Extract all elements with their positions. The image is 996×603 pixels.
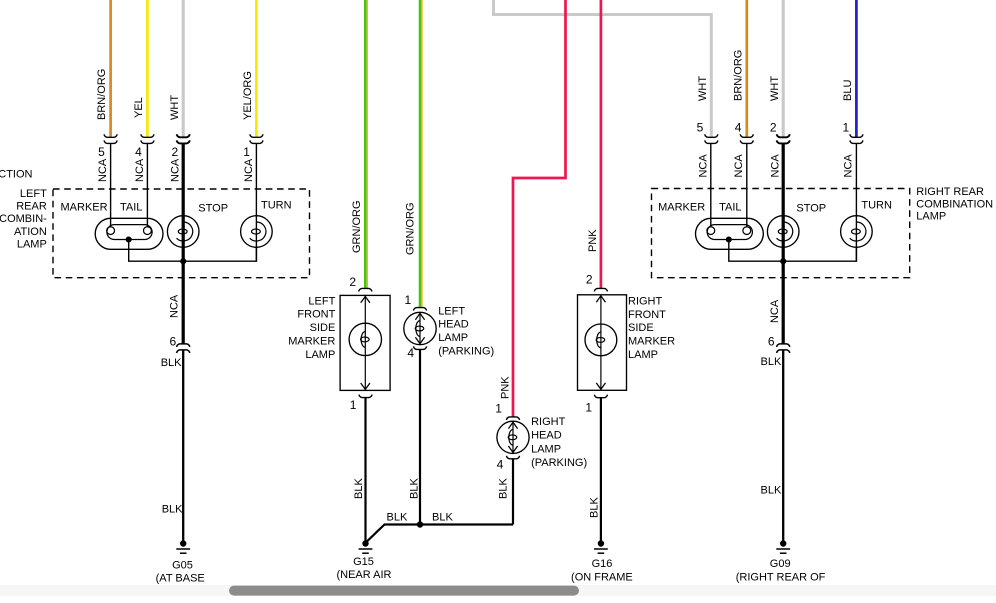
svg-text:BLK: BLK — [353, 478, 365, 499]
svg-text:2: 2 — [770, 121, 777, 135]
wire pin5 to marker bulb right — [710, 144, 712, 228]
ground G16 — [594, 540, 608, 553]
svg-text:6: 6 — [170, 335, 177, 349]
svg-text:BLK: BLK — [761, 356, 782, 368]
scrollbar track — [0, 585, 996, 596]
junction dot marker/tail right — [726, 236, 732, 242]
connector right front side marker pin 2 — [594, 288, 607, 291]
svg-text:(PARKING): (PARKING) — [531, 457, 587, 469]
svg-text:LAMP: LAMP — [628, 349, 658, 361]
svg-text:(NEAR AIR: (NEAR AIR — [336, 569, 391, 581]
marker/tail dual bulb left (stadium) — [95, 218, 163, 249]
stop bulb right — [767, 216, 799, 248]
wire GRN/ORG to left front side marker lamp — [365, 0, 367, 289]
svg-text:BLK: BLK — [588, 497, 600, 518]
svg-text:G16: G16 — [592, 558, 613, 570]
svg-text:(AT BASE: (AT BASE — [156, 573, 205, 585]
svg-text:1: 1 — [243, 145, 250, 159]
ground bus horizontal — [385, 523, 514, 525]
wire BRN/ORG feed left pin5 — [109, 0, 112, 137]
svg-text:G05: G05 — [172, 559, 193, 571]
junction dot left head on bus — [417, 521, 423, 527]
connector pin 1 left — [250, 134, 263, 143]
svg-text:5: 5 — [697, 121, 704, 135]
wire pin6 to G05 — [182, 350, 184, 543]
svg-text:NCA: NCA — [168, 294, 180, 318]
svg-text:PNK: PNK — [587, 229, 599, 252]
svg-text:G15: G15 — [353, 556, 374, 568]
title RIGHT HEAD LAMP (PARKING) — [531, 416, 587, 469]
wire pin6 to G09 — [782, 350, 784, 543]
svg-text:WHT: WHT — [697, 76, 709, 101]
svg-text:2: 2 — [586, 272, 593, 286]
svg-text:BRN/ORG: BRN/ORG — [96, 69, 108, 120]
svg-text:MARKER: MARKER — [658, 202, 705, 214]
svg-text:NCA: NCA — [134, 158, 146, 182]
connector pin 6 left — [177, 344, 190, 353]
svg-text:LAMP: LAMP — [531, 443, 561, 455]
right front side marker bulb — [585, 295, 617, 391]
wire right marker to G16 — [600, 398, 602, 544]
svg-text:MARKER: MARKER — [628, 336, 675, 348]
svg-text:BLK: BLK — [408, 478, 420, 499]
svg-text:MARKER: MARKER — [61, 202, 108, 214]
ground G15 — [359, 540, 373, 553]
svg-text:2: 2 — [349, 275, 356, 289]
svg-text:COMBINATION: COMBINATION — [916, 198, 993, 210]
svg-text:CTION: CTION — [0, 169, 33, 181]
svg-text:WHT: WHT — [169, 95, 181, 120]
title LEFT HEAD LAMP (PARKING) — [438, 305, 494, 357]
svg-text:GRN/ORG: GRN/ORG — [351, 200, 363, 253]
right rear combination lamp dashed box — [652, 189, 910, 278]
svg-text:BLK: BLK — [162, 504, 183, 516]
junction dot marker/tail left — [126, 236, 132, 242]
svg-text:G09: G09 — [770, 558, 791, 570]
svg-text:BLK: BLK — [161, 357, 182, 369]
svg-text:TAIL: TAIL — [719, 202, 741, 214]
svg-text:ATION: ATION — [14, 226, 47, 238]
wire pin5 to marker bulb left — [110, 144, 112, 228]
wire stop bulb to pin6 left (thick) — [182, 261, 185, 344]
svg-text:1: 1 — [585, 401, 592, 415]
svg-text:4: 4 — [497, 457, 504, 471]
svg-text:RIGHT: RIGHT — [628, 295, 663, 307]
connector pin 2 right — [777, 134, 790, 143]
svg-text:HEAD: HEAD — [531, 430, 562, 442]
svg-text:NCA: NCA — [697, 154, 709, 178]
connector left front side marker pin 2 — [359, 288, 372, 291]
svg-text:LEFT: LEFT — [438, 305, 465, 317]
svg-text:SIDE: SIDE — [310, 322, 336, 334]
connector pin 6 right — [777, 344, 790, 353]
svg-text:BLK: BLK — [387, 512, 408, 524]
wire YEL feed left pin4 — [146, 0, 149, 137]
svg-text:STOP: STOP — [198, 202, 228, 214]
junction dot stop/bus right — [780, 258, 786, 264]
wire GRN/ORG to left head lamp — [420, 0, 422, 308]
svg-text:MARKER: MARKER — [288, 336, 335, 348]
wire pin4 to tail bulb left — [146, 144, 148, 228]
svg-text:STOP: STOP — [796, 202, 826, 214]
svg-text:TAIL: TAIL — [120, 202, 142, 214]
svg-text:BLU: BLU — [842, 80, 854, 101]
svg-text:NCA: NCA — [243, 158, 255, 182]
junction dot stop/bus left — [180, 258, 186, 264]
internal ground bus left box — [129, 240, 257, 262]
svg-text:LEFT: LEFT — [308, 295, 335, 307]
svg-text:4: 4 — [135, 145, 142, 159]
wire pin2 stop feed right (thick) — [782, 144, 785, 262]
svg-text:(PARKING): (PARKING) — [438, 346, 494, 358]
left head lamp bulb — [404, 312, 436, 344]
connector pin 4 left — [141, 134, 154, 143]
svg-text:BLK: BLK — [761, 484, 782, 496]
svg-text:FRONT: FRONT — [628, 309, 666, 321]
wire pin1 to turn bulb left — [255, 144, 257, 262]
wire BLU feed right pin1 — [855, 0, 858, 137]
svg-text:(ON FRAME: (ON FRAME — [571, 572, 633, 584]
internal ground bus right box — [729, 240, 857, 262]
marker/tail dual bulb right (stadium) — [696, 218, 764, 249]
svg-text:NCA: NCA — [97, 158, 109, 182]
svg-text:5: 5 — [98, 145, 105, 159]
stop bulb left — [167, 216, 199, 248]
svg-text:REAR: REAR — [16, 201, 47, 213]
connector pin 5 left — [104, 134, 117, 143]
svg-text:BLK: BLK — [497, 478, 509, 499]
svg-text:LAMP: LAMP — [916, 211, 946, 223]
svg-text:1: 1 — [495, 402, 502, 416]
wire left marker to G15 — [364, 398, 366, 544]
svg-text:6: 6 — [768, 335, 775, 349]
title RIGHT FRONT SIDE MARKER LAMP — [628, 295, 675, 361]
left rear combination lamp dashed box — [53, 189, 310, 278]
wire pin4 to tail bulb right — [746, 144, 748, 228]
svg-text:LAMP: LAMP — [305, 349, 335, 361]
svg-text:GRN/ORG: GRN/ORG — [405, 202, 417, 255]
svg-text:TURN: TURN — [861, 199, 892, 211]
svg-text:PNK: PNK — [499, 376, 511, 399]
svg-text:SIDE: SIDE — [628, 322, 654, 334]
connector right head lamp pin 1 — [506, 417, 519, 420]
ground bus diagonal to G15 — [366, 524, 385, 542]
wire PNK to right head lamp — [513, 0, 566, 417]
title LEFT REAR COMBINATION LAMP — [0, 188, 47, 250]
svg-text:LAMP: LAMP — [438, 332, 468, 344]
svg-text:WHT: WHT — [769, 76, 781, 101]
wire left head lamp to ground bus — [419, 350, 421, 525]
svg-text:2: 2 — [172, 145, 179, 159]
wire right head lamp to ground bus — [512, 459, 514, 525]
right head lamp bulb — [497, 421, 529, 453]
ground G09 — [776, 540, 790, 553]
svg-text:BLK: BLK — [432, 512, 453, 524]
svg-text:RIGHT: RIGHT — [531, 416, 566, 428]
wire PNK to right front side marker lamp — [600, 0, 603, 289]
connector left head lamp pin 4 — [413, 346, 426, 349]
svg-text:FRONT: FRONT — [297, 309, 335, 321]
svg-text:4: 4 — [735, 121, 742, 135]
svg-text:4: 4 — [407, 346, 414, 360]
left front side marker lamp box — [340, 295, 390, 390]
wire YEL/ORG feed left pin1 — [255, 0, 258, 137]
svg-text:1: 1 — [843, 121, 850, 135]
wire WHT feed left pin2 — [182, 0, 185, 137]
svg-text:NCA: NCA — [769, 154, 781, 178]
connector pin 2 left — [177, 134, 190, 143]
left front side marker bulb — [349, 295, 381, 390]
svg-text:NCA: NCA — [733, 154, 745, 178]
svg-text:1: 1 — [405, 293, 412, 307]
svg-text:HEAD: HEAD — [438, 319, 469, 331]
svg-text:RIGHT REAR: RIGHT REAR — [916, 186, 984, 198]
wire WHT feed right pin2 — [782, 0, 785, 137]
svg-text:TURN: TURN — [261, 199, 292, 211]
connector pin 5 right — [705, 134, 718, 143]
turn bulb right — [841, 216, 873, 248]
connector left front side marker pin 1 — [359, 395, 372, 398]
svg-text:LEFT: LEFT — [20, 188, 47, 200]
connector left head lamp pin 1 — [413, 308, 426, 311]
svg-text:YEL/ORG: YEL/ORG — [242, 71, 254, 120]
wire BRN/ORG feed right pin4 — [745, 0, 748, 137]
right front side marker lamp box — [578, 295, 627, 391]
wire pin2 stop feed left (thick) — [182, 144, 185, 262]
scrollbar thumb — [229, 586, 579, 596]
turn bulb left — [241, 216, 273, 248]
title RIGHT REAR COMBINATION LAMP — [916, 186, 993, 223]
connector right front side marker pin 1 — [594, 395, 607, 398]
svg-text:1: 1 — [350, 398, 357, 412]
svg-text:NCA: NCA — [769, 299, 781, 323]
svg-text:LAMP: LAMP — [17, 238, 47, 250]
title LEFT FRONT SIDE MARKER LAMP — [288, 295, 335, 361]
ground G05 — [176, 540, 190, 553]
wire stop bulb to pin6 right (thick) — [782, 261, 785, 344]
wire WHT L-shape to right pin5 — [494, 0, 712, 137]
svg-text:YEL: YEL — [133, 97, 145, 118]
svg-text:BRN/ORG: BRN/ORG — [732, 50, 744, 101]
connector right head lamp pin 4 — [506, 456, 519, 459]
connector pin 1 right — [850, 134, 863, 143]
wire pin1 to turn bulb right — [855, 144, 857, 262]
svg-text:(RIGHT REAR OF: (RIGHT REAR OF — [736, 572, 826, 584]
svg-text:NCA: NCA — [170, 158, 182, 182]
svg-text:NCA: NCA — [843, 154, 855, 178]
connector pin 4 right — [740, 134, 753, 143]
svg-text:COMBIN-: COMBIN- — [0, 213, 47, 225]
